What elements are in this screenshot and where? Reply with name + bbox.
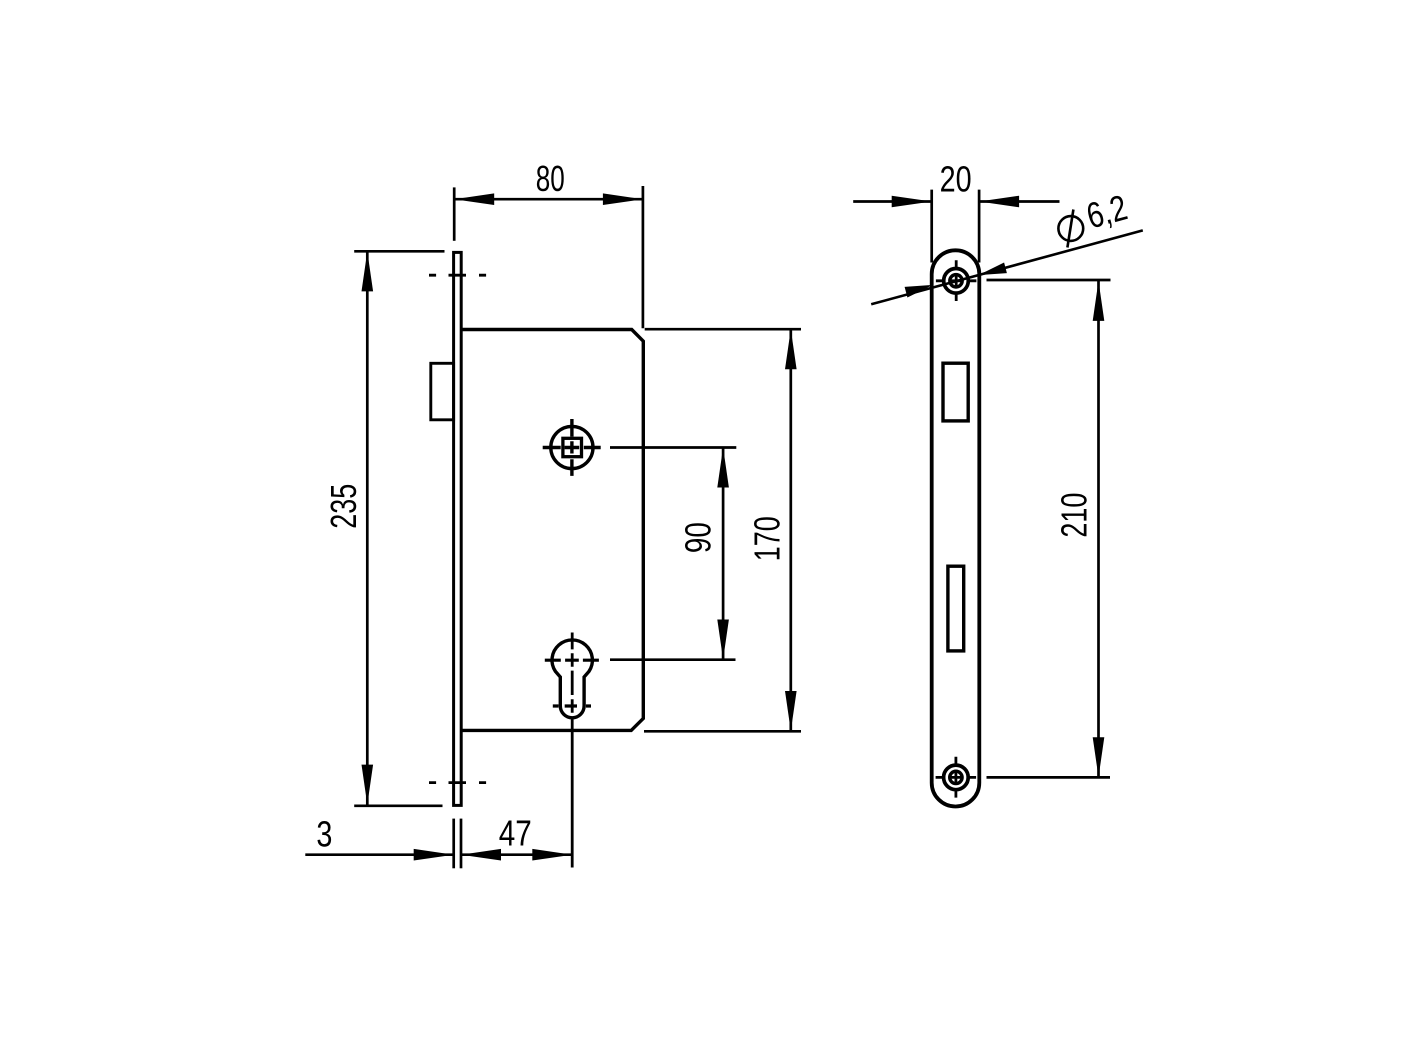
arrow diameter left — [905, 285, 933, 298]
svg-text:170: 170 — [746, 516, 787, 561]
spindle square hole — [563, 438, 582, 456]
faceplate bottom screw centerline mark — [429, 781, 486, 784]
right view faceplate stadium outline — [932, 250, 980, 806]
arrow 20 right side — [979, 196, 1019, 208]
dimension 170 lines — [644, 329, 801, 731]
arrow 90 top — [717, 448, 729, 488]
deadbolt cutout (lower rectangle) — [948, 566, 964, 651]
svg-text:47: 47 — [499, 813, 532, 854]
svg-text:90: 90 — [678, 522, 719, 553]
arrow 235 bottom — [362, 765, 374, 805]
arrow 80 right — [603, 193, 643, 205]
arrow 47 left-pointing — [461, 849, 501, 861]
bottom screw hole — [944, 765, 969, 790]
spindle hub circle — [551, 426, 593, 468]
top screw hole — [944, 269, 969, 294]
arrow 170 top — [785, 329, 797, 369]
cylinder crosshair horizontal — [545, 659, 599, 662]
latch bolt — [431, 363, 454, 420]
svg-text:20: 20 — [940, 158, 972, 199]
euro cylinder profile hole — [552, 640, 592, 718]
lock case body outline — [461, 330, 644, 731]
svg-text:235: 235 — [323, 484, 364, 529]
diameter symbol — [1058, 216, 1083, 241]
dimension 235 lines — [354, 251, 444, 806]
arrowheads — [362, 193, 1105, 860]
arrow 210 top — [1093, 281, 1105, 321]
arrow 210 bottom — [1093, 737, 1105, 777]
diameter 6,2 leader line — [871, 230, 1143, 304]
latch cutout (upper rectangle) — [943, 363, 968, 421]
dimension 80 lines — [454, 186, 643, 328]
arrow 3 right-pointing — [414, 849, 454, 861]
arrow 80 left — [454, 193, 494, 205]
arrow diameter right — [979, 263, 1007, 276]
spindle crosshair vertical — [570, 419, 573, 476]
arrow 170 bottom — [785, 691, 797, 731]
dimension 90 lines — [610, 448, 736, 660]
arrow 90 bottom — [717, 620, 729, 660]
dimension 20 lines — [853, 190, 1059, 263]
spindle crosshair horizontal — [543, 446, 601, 449]
svg-text:3: 3 — [316, 814, 332, 855]
arrow 47 right-pointing — [532, 849, 572, 861]
svg-text:210: 210 — [1054, 493, 1095, 538]
arrow 235 top — [362, 251, 374, 291]
cylinder vertical centerline (extends to 47 dim) — [571, 633, 574, 868]
dimension 3 and 47 lines — [305, 819, 572, 869]
faceplate side view (left view) — [454, 252, 462, 805]
cylinder small crosshair horizontal — [553, 704, 591, 707]
faceplate top screw centerline mark — [429, 274, 486, 277]
dimension 210 lines — [987, 280, 1111, 777]
svg-text:80: 80 — [536, 158, 565, 199]
arrow 20 left side — [892, 196, 932, 208]
